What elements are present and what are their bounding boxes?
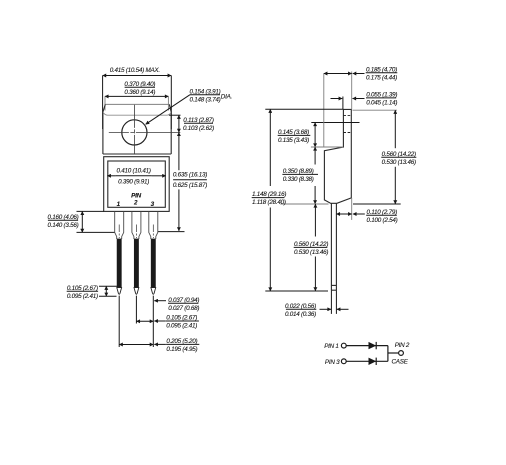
svg-text:0.530 (13.46): 0.530 (13.46) — [294, 249, 328, 256]
svg-text:0.360 (9.14): 0.360 (9.14) — [124, 89, 155, 96]
svg-text:PIN: PIN — [131, 193, 141, 200]
svg-text:0.635 (16.13): 0.635 (16.13) — [173, 171, 207, 178]
svg-text:0.175 (4.44): 0.175 (4.44) — [366, 74, 397, 81]
svg-text:0.045 (1.14): 0.045 (1.14) — [366, 100, 397, 107]
svg-text:0.095 (2.41): 0.095 (2.41) — [67, 293, 98, 300]
svg-text:PIN 2: PIN 2 — [395, 342, 410, 349]
svg-text:DIA.: DIA. — [221, 93, 232, 100]
svg-text:0.100 (2.54): 0.100 (2.54) — [367, 217, 398, 224]
svg-text:PIN 1: PIN 1 — [324, 343, 339, 350]
svg-text:0.103 (2.62): 0.103 (2.62) — [183, 125, 214, 132]
svg-text:CASE: CASE — [392, 359, 409, 366]
svg-text:0.148 (3.74): 0.148 (3.74) — [190, 96, 221, 103]
svg-text:0.095 (2.41): 0.095 (2.41) — [166, 323, 197, 330]
svg-text:0.415 (10.54) MAX.: 0.415 (10.54) MAX. — [110, 67, 160, 74]
svg-text:0.625 (15.87): 0.625 (15.87) — [173, 182, 207, 189]
svg-text:0.330 (8.38): 0.330 (8.38) — [283, 176, 314, 183]
svg-text:0.410 (10.41): 0.410 (10.41) — [116, 168, 150, 175]
svg-text:0.140 (3.56): 0.140 (3.56) — [48, 222, 79, 229]
svg-text:1.118 (28.40): 1.118 (28.40) — [252, 199, 286, 206]
svg-text:0.390 (9.91): 0.390 (9.91) — [118, 178, 149, 185]
svg-text:0.195 (4.95): 0.195 (4.95) — [166, 346, 197, 353]
svg-text:0.135 (3.43): 0.135 (3.43) — [278, 137, 309, 144]
svg-text:0.530 (13.46): 0.530 (13.46) — [382, 159, 416, 166]
svg-text:0.027 (0.68): 0.027 (0.68) — [168, 305, 199, 312]
svg-text:PIN 3: PIN 3 — [325, 359, 340, 366]
svg-text:0.014 (0.36): 0.014 (0.36) — [285, 311, 316, 318]
svg-text:2: 2 — [133, 200, 138, 207]
